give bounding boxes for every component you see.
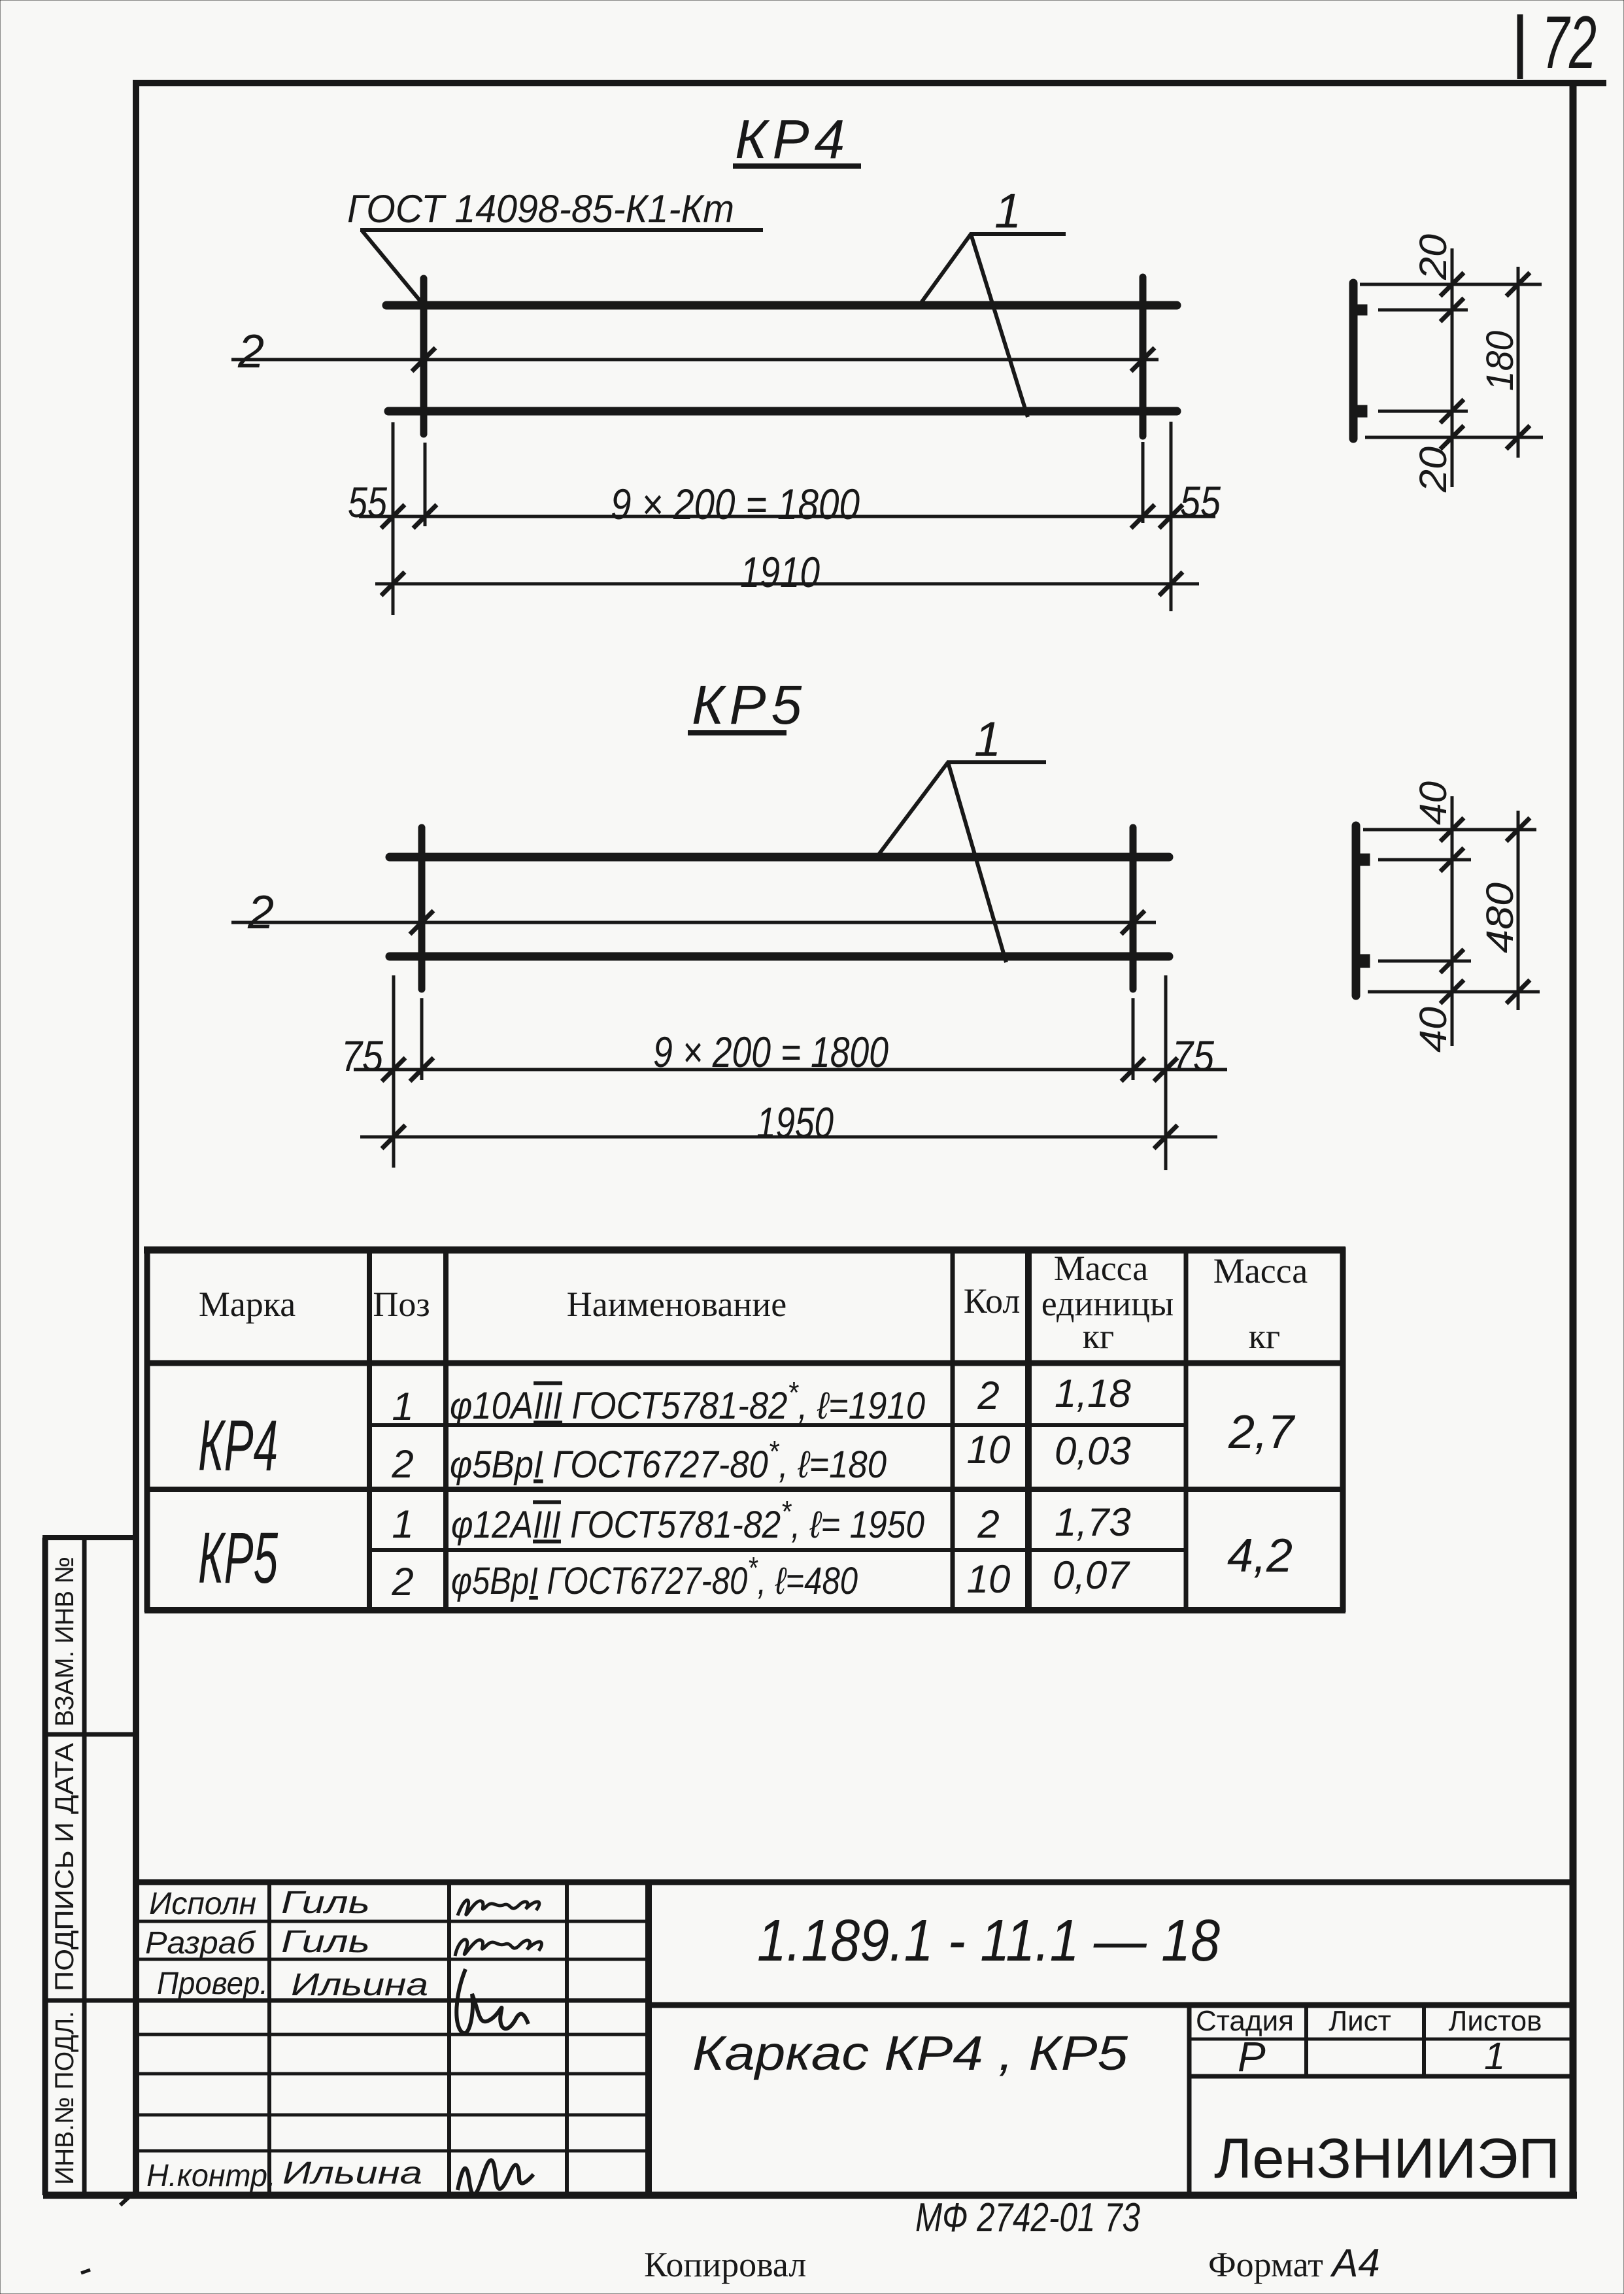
svg-text:75: 75 [341,1032,383,1080]
KR4 dimension line 9x200=1800 [359,515,1215,518]
signature 4 (N.kontr) [458,2160,533,2195]
svg-text:40: 40 [1412,781,1455,825]
KR5 side view bottom bar dot [1360,954,1370,968]
KR5 right transverse wire [1130,828,1137,989]
svg-text:9 × 200 = 1800: 9 × 200 = 1800 [611,480,860,528]
svg-text:ИНВ.№ ПОДЛ.: ИНВ.№ ПОДЛ. [50,2011,79,2185]
small tick below frame bottom left [120,2197,129,2205]
page number tick [1517,14,1523,79]
svg-text:180: 180 [1479,331,1521,391]
KR5 side extension lines [1363,830,1540,992]
svg-text:Листов: Листов [1449,2005,1542,2037]
parts table grid [144,1247,1345,1612]
KR4 title [733,109,861,170]
KR4 side dim line 180 [1517,267,1520,458]
table header Massa kg [1213,1251,1308,1356]
svg-text:55: 55 [348,478,387,526]
frame left border [133,80,139,2197]
KR5 left transverse wire [418,828,426,989]
svg-text:КР4: КР4 [198,1406,278,1486]
KR5 transverse wire axis line (poz 2 leader) [231,921,1156,924]
KR5 dimension extension lines [394,975,1166,1170]
svg-text:Каркас КР4 , КР5: Каркас КР4 , КР5 [692,2026,1128,2080]
KR5 dimension line 9x200=1800 [354,1068,1227,1071]
svg-text:2: 2 [237,326,264,378]
KR4 left transverse wire [420,278,428,434]
svg-text:2: 2 [391,1560,413,1604]
svg-text:20: 20 [1412,234,1455,280]
KR5 dim ticks 1950 [382,1125,1177,1149]
KR4 right transverse wire [1140,277,1147,436]
svg-text:40: 40 [1412,1007,1455,1053]
svg-text:2: 2 [247,886,274,939]
svg-text:1,18: 1,18 [1055,1372,1131,1415]
svg-text:Ильина: Ильина [291,1968,428,2002]
KR5 side view wire [1352,826,1361,996]
frame top border [133,80,1606,86]
svg-text:Лист: Лист [1328,2005,1391,2037]
svg-text:Разраб: Разраб [145,1926,256,1961]
KR4 side view top bar dot [1357,305,1367,315]
svg-text:Копировал: Копировал [644,2245,806,2284]
KR4 top longitudinal bar (poz 1) [386,301,1177,310]
svg-text:1: 1 [392,1385,413,1428]
svg-text:20: 20 [1412,447,1455,493]
svg-text:Р: Р [1238,2033,1266,2080]
svg-text:1: 1 [974,712,1001,766]
frame bottom border [43,2192,1577,2199]
table kol values [967,1374,1011,1601]
KR4 side dim line 20/20 [1451,248,1454,487]
svg-text:ПОДПИСЬ И ДАТА: ПОДПИСЬ И ДАТА [50,1743,79,1991]
table header Massa edinicy kg [1041,1249,1174,1356]
KR5 side dim ticks [1440,818,1530,1004]
svg-text:72: 72 [1542,1,1597,84]
frame right border [1570,80,1577,2198]
svg-text:2: 2 [391,1442,413,1486]
svg-text:МФ 2742-01 73: МФ 2742-01 73 [915,2195,1140,2240]
KR4 weld note GOST 14098-85-K1-Kt [347,187,763,303]
KR4 bottom longitudinal bar (poz 1) [388,407,1177,416]
svg-text:10: 10 [967,1428,1011,1472]
svg-text:55: 55 [1180,477,1221,526]
svg-text:КР5: КР5 [692,674,807,735]
svg-text:Масса: Масса [1213,1251,1308,1290]
svg-text:480: 480 [1479,883,1521,953]
svg-text:Формат А4: Формат А4 [1208,2241,1380,2285]
KR4 label 1 with leader [919,184,1066,417]
svg-text:10: 10 [967,1557,1011,1601]
signature 3 (big loop) [456,1969,528,2033]
KR4 wire tick marks on axis [412,348,1155,371]
svg-text:КР5: КР5 [198,1518,279,1598]
KR4 side dim ticks [1440,273,1530,449]
KR5 top longitudinal bar (poz 1) [390,853,1169,862]
svg-text:КР4: КР4 [735,109,850,170]
signature 1 [458,1900,539,1915]
svg-text:Провер.: Провер. [157,1966,268,2001]
KR5 title [688,674,807,735]
svg-text:1,73: 1,73 [1055,1500,1131,1544]
KR4 side view wire [1349,283,1358,439]
KR5 side dim line 480 [1517,811,1520,1010]
KR4 dimension extension lines [393,422,1171,615]
KR5 wire tick marks on axis [410,911,1145,934]
KR4 dimension line 1910 [375,582,1199,586]
svg-text:Марка: Марка [199,1285,296,1324]
table unit mass values [1053,1372,1131,1597]
svg-text:1950: 1950 [756,1098,834,1147]
svg-text:2: 2 [977,1374,999,1417]
svg-text:9 × 200 = 1800: 9 × 200 = 1800 [653,1028,888,1076]
svg-text:Стадия: Стадия [1196,2005,1294,2037]
svg-text:Ильина: Ильина [282,2156,422,2191]
svg-text:Гиль: Гиль [281,1925,370,1959]
svg-text:кг: кг [1083,1317,1114,1356]
svg-text:ВЗАМ. ИНВ №: ВЗАМ. ИНВ № [50,1557,79,1727]
table poz values [391,1385,413,1604]
KR5 bottom longitudinal bar (poz 1) [390,953,1169,961]
svg-text:Наименование: Наименование [567,1285,787,1324]
svg-text:2,7: 2,7 [1228,1406,1296,1459]
KR5 side dim line 40/40 [1451,796,1454,1046]
svg-text:1910: 1910 [740,548,820,596]
svg-text:Исполн: Исполн [149,1887,256,1921]
KR4 dim ticks 1910 [381,572,1183,596]
svg-text:Гиль: Гиль [281,1885,370,1920]
KR4 transverse wire axis line (poz 2 leader) [231,358,1159,362]
svg-text:4,2: 4,2 [1227,1530,1293,1582]
KR4 dim ticks [381,505,1183,528]
KR5 dim ticks [382,1058,1177,1081]
svg-text:2: 2 [977,1502,999,1546]
svg-text:ЛенЗНИИЭП: ЛенЗНИИЭП [1214,2127,1560,2190]
svg-text:1.189.1 - 11.1 — 18: 1.189.1 - 11.1 — 18 [757,1908,1220,1974]
svg-text:1: 1 [392,1502,413,1546]
svg-text:1: 1 [994,184,1021,238]
left margin box frame [42,1538,136,2195]
KR4 side extension lines [1360,284,1543,437]
KR5 dimension line 1950 [360,1136,1217,1139]
title block grid [137,1882,1573,2195]
svg-text:Масса: Масса [1054,1249,1149,1288]
svg-text:ГОСТ 14098-85-К1-Кт: ГОСТ 14098-85-К1-Кт [347,187,734,231]
svg-text:1: 1 [1484,2035,1505,2078]
small mark bottom left [81,2270,90,2273]
svg-text:0,03: 0,03 [1055,1429,1131,1473]
svg-text:Кол: Кол [964,1281,1021,1321]
KR5 label 1 with leader [877,712,1046,962]
signature 2 [455,1940,542,1956]
KR4 side view bottom bar dot [1357,405,1367,417]
svg-text:Н.контр.: Н.контр. [146,2159,276,2193]
svg-text:0,07: 0,07 [1053,1553,1130,1597]
KR5 side view top bar dot [1360,854,1370,866]
svg-text:75: 75 [1172,1032,1214,1080]
svg-text:Поз: Поз [373,1285,430,1324]
svg-text:кг: кг [1249,1317,1280,1356]
